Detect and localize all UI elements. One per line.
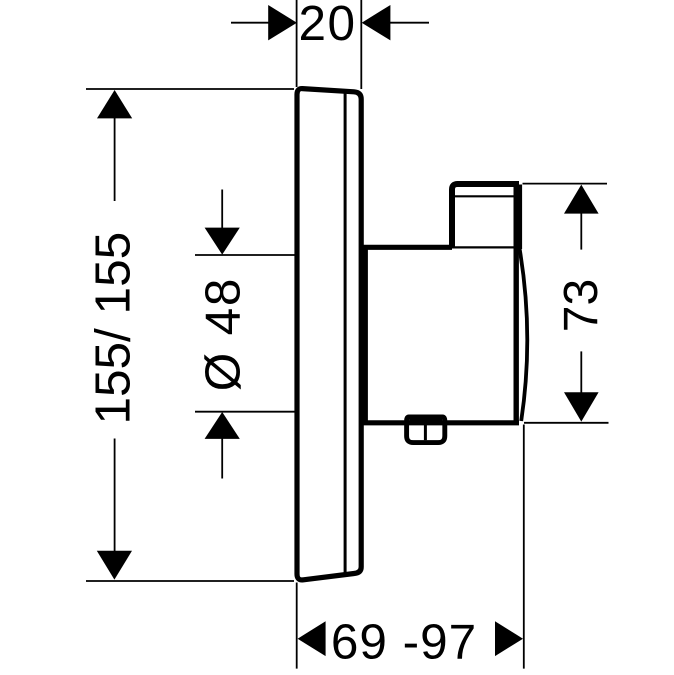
- dim 69-97 right arrowhead: [495, 621, 523, 656]
- faceplate chamfer inner line: [344, 92, 347, 576]
- svg-text:20: 20: [298, 0, 356, 51]
- stop handle top outline: [452, 184, 519, 247]
- dim 20 right arrowhead: [362, 5, 391, 40]
- dim 155 top arrowhead: [97, 90, 132, 118]
- dim 73 line lower: [580, 351, 582, 392]
- dim 155 line lower: [114, 439, 116, 552]
- valve body bottom edge: [361, 420, 519, 425]
- dim 73 top arrowhead: [564, 185, 599, 214]
- dim 48 extension line top: [195, 254, 295, 256]
- dim 20 left arrowhead: [268, 5, 297, 40]
- stop handle right edge thickening: [518, 185, 522, 250]
- svg-text:155/ 155: 155/ 155: [85, 232, 140, 425]
- valve body top edge thick: [363, 245, 452, 250]
- valve body left edge: [363, 246, 368, 422]
- svg-text:69 -97: 69 -97: [331, 614, 477, 669]
- dim 20 extension line left: [296, 0, 298, 87]
- faceplate escutcheon outline: [297, 89, 361, 580]
- dim 20 extension line right: [360, 0, 362, 89]
- dim 73 line upper: [580, 213, 582, 250]
- dim 48 upper arrow tail: [221, 190, 223, 229]
- dim 69-97 extension line right: [523, 425, 525, 669]
- valve body and stop handle right straight edge: [514, 185, 519, 423]
- dim 69-97 left arrowhead: [298, 621, 326, 656]
- dim 48 lower arrow tail: [221, 439, 223, 479]
- dim 48 lower arrowhead: [205, 412, 240, 439]
- dim 48 extension line bottom: [195, 411, 295, 413]
- dim 20 right arrow tail: [390, 22, 429, 24]
- dim 155 extension line top: [86, 88, 294, 90]
- valve body right bulge arc: [519, 247, 527, 422]
- dim 69-97 extension line left: [296, 583, 298, 669]
- dim 155 line upper: [114, 118, 116, 202]
- dim 48 upper arrowhead: [205, 228, 240, 255]
- bottom notch divider: [424, 424, 427, 440]
- bottom notch bump arc: [409, 417, 442, 422]
- dim 20 left arrow tail: [231, 22, 269, 24]
- dim 73 extension line top: [523, 183, 608, 185]
- stop handle inner line: [454, 195, 516, 197]
- svg-text:73: 73: [555, 279, 608, 332]
- dim 155 bottom arrowhead: [97, 551, 132, 580]
- bottom notch outline: [407, 417, 445, 443]
- svg-text:Ø 48: Ø 48: [196, 277, 251, 392]
- dim 155 extension line bottom: [86, 580, 294, 582]
- dim 73 bottom arrowhead: [564, 392, 599, 421]
- dim 73 extension line bottom: [524, 422, 609, 424]
- valve body top edge thin under stop handle: [452, 246, 516, 248]
